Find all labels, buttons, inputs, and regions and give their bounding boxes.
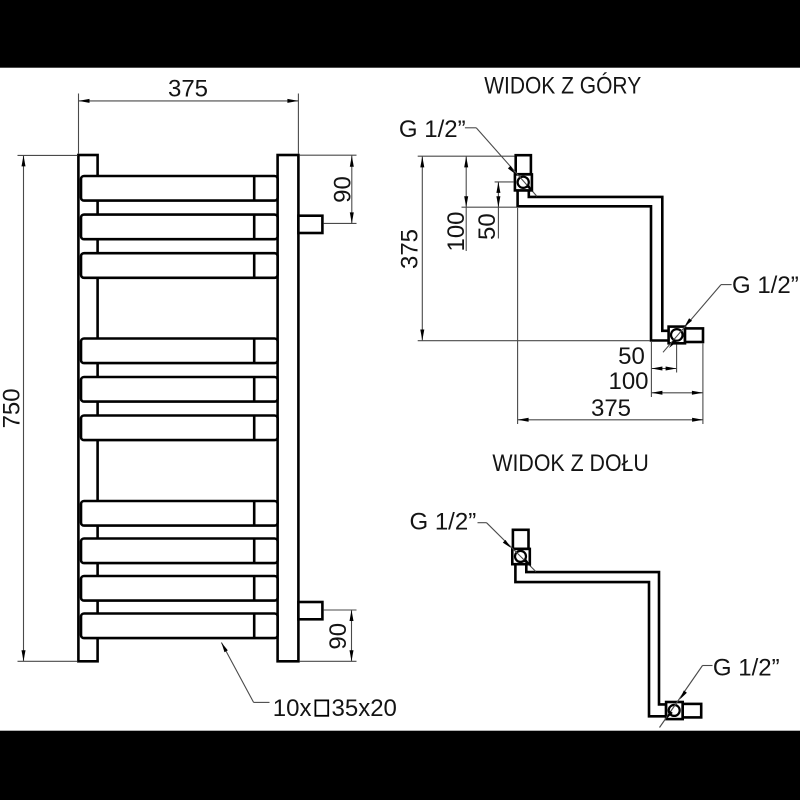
front view: upper dim 90 dimension line: [351, 155, 353, 223]
svg-text:100: 100: [443, 211, 470, 251]
front view: dim 750 bottom arrow: [22, 650, 26, 661]
front view: lower dim 90 top extension line: [323, 609, 356, 611]
top view: dim 375 dimension line: [421, 156, 423, 340]
top view: upper fitting valve circle: [518, 177, 529, 188]
top view: dim 50 bottom dimension line: [651, 368, 676, 370]
front view: lower dim 90 dimension line: [351, 610, 353, 661]
top view: lower fitting valve body: [669, 327, 685, 344]
front view: bar 5 end-cap divider line: [253, 377, 256, 402]
bottom view: Z-shaped pipe body: [515, 564, 666, 716]
front view: horizontal rail bar 7: [81, 501, 278, 526]
front view: label square profile symbol: [315, 700, 328, 715]
top view: dim 50 bottom left arrow: [651, 367, 662, 371]
svg-text:G 1/2”: G 1/2”: [732, 272, 799, 299]
top view: extension line valve centre vertical: [676, 345, 678, 373]
top view: dim 375 bottom right arrow: [692, 418, 703, 422]
top view: Z-shaped pipe body: [518, 190, 669, 340]
front view: upper dim 90 top arrow: [350, 156, 354, 167]
front view: dim 750 top extension line: [18, 154, 78, 156]
bottom view: lower fitting leader line: [703, 665, 713, 667]
front view: upper connection stub on right post: [298, 216, 322, 233]
front view: bar 9 end-cap divider line: [253, 576, 256, 601]
bottom view: lower fitting nipple G 1/2: [683, 704, 702, 718]
top view: upper fitting nipple G 1/2: [516, 155, 531, 174]
top view: lower fitting nipple G 1/2: [685, 328, 703, 342]
front view: lower dim 90 bottom arrow: [350, 650, 354, 661]
bottom view: lower fitting leader arrow 2: [666, 711, 673, 720]
bottom view: upper fitting leader arrow 2: [523, 559, 531, 567]
top view: upper fitting leader arrow 2: [526, 184, 534, 192]
top view: dim 100 bottom right arrow: [692, 391, 703, 395]
front view: bar 8 end-cap divider line: [253, 539, 256, 564]
top view: extension line nipple right edge: [702, 344, 704, 425]
front view: bar 1 end-cap divider line: [253, 176, 256, 201]
top view: dim 50 bottom arrow: [496, 196, 500, 207]
front view: horizontal rail bar 5: [81, 377, 278, 402]
svg-text:G 1/2”: G 1/2”: [399, 116, 466, 143]
bottom view: upper fitting leader arrow 1: [503, 540, 511, 548]
front view: horizontal rail bar 6: [81, 416, 278, 441]
front view: dim 375 dimension line: [79, 100, 299, 102]
front view: lower connection stub on right post: [298, 602, 322, 619]
svg-text:10x: 10x: [273, 695, 312, 722]
front view: horizontal rail bar 3: [81, 253, 278, 278]
svg-text:375: 375: [168, 75, 208, 102]
front view: bar 10 end-cap divider line: [253, 614, 256, 639]
top view: dim 375 bottom extension line: [418, 340, 650, 342]
top view: lower fitting leader arrow 2: [669, 340, 677, 349]
bottom view: lower fitting leader arrow 1: [680, 691, 687, 700]
top view: extension line pipe start vertical: [517, 208, 519, 424]
front view: bar 2 end-cap divider line: [253, 215, 256, 240]
front view: upper dim 90 bottom arrow: [350, 212, 354, 223]
front view: dim 375 right arrow: [287, 99, 298, 103]
front view: horizontal rail bar 1: [81, 176, 278, 201]
svg-text:WIDOK Z DOŁU: WIDOK Z DOŁU: [492, 450, 649, 477]
front view: lower dim 90 bottom extension line: [299, 660, 356, 662]
top view: dim 100 bottom dimension line: [651, 392, 703, 394]
bottom view: lower fitting valve circle: [669, 705, 680, 716]
front view: upper dim 90 top extension line: [299, 154, 356, 156]
bottom view: upper fitting valve circle: [515, 551, 526, 562]
front view: dim 375 left arrow: [79, 99, 90, 103]
top view: upper fitting leader line: [465, 127, 476, 129]
front view: dim 375 left extension line: [78, 94, 80, 155]
front view: horizontal rail bar 9: [81, 576, 278, 601]
svg-text:50: 50: [474, 213, 501, 240]
svg-text:750: 750: [0, 388, 26, 428]
top view: upper fitting valve body: [515, 174, 532, 190]
bottom black letterbox band: [0, 731, 800, 800]
bottom view: upper fitting nipple G 1/2: [513, 530, 529, 549]
front view: bar 3 end-cap divider line: [253, 253, 256, 278]
front view: dim 750 dimension line: [23, 155, 25, 661]
front view: dim 750 top arrow: [22, 155, 26, 166]
top view: pipe bottom extension line: [462, 206, 517, 208]
svg-text:375: 375: [397, 229, 424, 269]
top view: dim 375 bottom left arrow: [518, 418, 529, 422]
top view: dim 100 bottom arrow: [464, 196, 468, 207]
top view: lower fitting leader arrow 1: [684, 318, 692, 327]
top view: dim 100 bottom left arrow: [651, 391, 662, 395]
svg-text:375: 375: [591, 395, 631, 422]
top view: dim 100 dimension line with tail: [465, 156, 467, 251]
top view: dim 50 dimension line with tail: [497, 182, 499, 239]
top view: valve centre extension line: [495, 181, 514, 183]
front view: horizontal rail bar 2: [81, 215, 278, 240]
front view: bar 7 end-cap divider line: [253, 501, 256, 526]
front view: bar 6 end-cap divider line: [253, 416, 256, 441]
top view: dim 50 bottom right arrow: [666, 367, 677, 371]
top view: dim 100 top arrow: [464, 156, 468, 167]
front view: left collector post: [78, 155, 97, 661]
top black letterbox band: [0, 0, 800, 68]
top view: lower fitting valve circle: [671, 329, 683, 341]
front view: horizontal rail bar 4: [81, 339, 278, 364]
front view: bar count leader arrow: [221, 643, 227, 653]
front view: right collector post: [278, 155, 299, 661]
top view: dim 50 top arrow: [496, 182, 500, 193]
top view: dim 375 bottom arrow: [420, 330, 424, 341]
svg-text:35x20: 35x20: [332, 695, 397, 722]
top view: dim 375 top arrow: [420, 156, 424, 167]
svg-text:90: 90: [325, 623, 352, 650]
svg-text:G 1/2”: G 1/2”: [713, 655, 780, 682]
front view: upper dim 90 bottom extension line: [323, 222, 356, 224]
top view: lower fitting leader line: [721, 284, 732, 286]
bottom view: upper fitting leader line: [478, 522, 487, 524]
front view: dim 375 right extension line: [297, 94, 299, 155]
svg-text:90: 90: [329, 176, 356, 203]
bottom view: lower fitting valve body: [666, 702, 683, 719]
top view: dim 375 bottom dimension line: [518, 419, 704, 421]
front view: horizontal rail bar 8: [81, 539, 278, 564]
bottom view: upper fitting valve body: [512, 549, 530, 564]
top view: upper fitting leader arrow 1: [508, 166, 516, 174]
front view: lower dim 90 top arrow: [350, 610, 354, 621]
front view: horizontal rail bar 10: [81, 614, 278, 639]
svg-text:100: 100: [608, 368, 648, 395]
top view: extension line pipe left edge: [650, 342, 652, 397]
top view: dim 375 top extension line: [418, 155, 515, 157]
svg-text:G 1/2”: G 1/2”: [410, 509, 477, 536]
front view: bar count leader line: [221, 643, 253, 703]
svg-text:WIDOK Z GÓRY: WIDOK Z GÓRY: [484, 72, 641, 99]
front view: bar 4 end-cap divider line: [253, 339, 256, 364]
front view: dim 750 bottom extension line: [18, 660, 78, 662]
svg-text:50: 50: [618, 343, 645, 370]
